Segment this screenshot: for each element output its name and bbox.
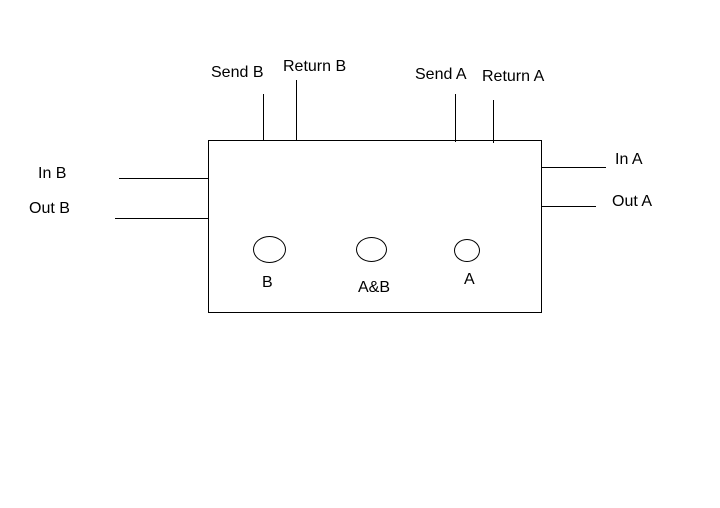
wire Return B <box>296 80 297 141</box>
label Return B <box>283 59 346 75</box>
label Send B <box>211 65 263 81</box>
label B <box>262 275 273 291</box>
knob A&B <box>356 237 387 262</box>
device box <box>208 140 542 313</box>
label In B <box>38 166 66 182</box>
label Return A <box>482 69 544 85</box>
knob A <box>454 239 480 262</box>
label A <box>464 272 475 288</box>
wire Out B <box>115 218 208 219</box>
wire In B <box>119 178 208 179</box>
label Out A <box>612 194 652 210</box>
knob B <box>253 236 286 263</box>
label In A <box>615 152 643 168</box>
wire In A <box>542 167 606 168</box>
wire Send B <box>263 94 264 141</box>
wire Out A <box>542 206 596 207</box>
wire Return A <box>493 100 494 143</box>
label Send A <box>415 67 467 83</box>
label Out B <box>29 201 70 217</box>
wire Send A <box>455 94 456 142</box>
label A&B <box>358 280 390 296</box>
